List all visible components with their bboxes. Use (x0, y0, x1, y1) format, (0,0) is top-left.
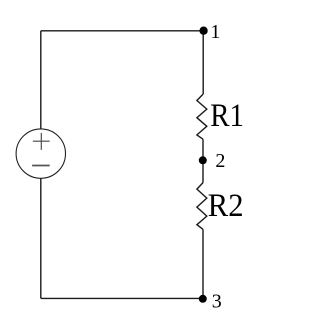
wire left vertical lower (40, 178, 42, 298)
minus sign (32, 165, 50, 167)
resistor R2 (197, 183, 207, 230)
voltage source V circle (16, 129, 65, 178)
wire top horizontal (41, 30, 203, 32)
wire node 2 to R2 (202, 160, 204, 182)
wire right vertical upper (202, 31, 204, 94)
resistor R1 (197, 94, 207, 139)
node 1 junction dot (199, 27, 207, 35)
wire R2 to node 3 (202, 229, 204, 298)
plus sign (33, 133, 50, 150)
node 3 junction dot (199, 295, 207, 303)
wire bottom horizontal (41, 297, 203, 299)
svg-text:1: 1 (210, 21, 220, 43)
wire left vertical upper (40, 31, 42, 129)
wire R1 to node 2 (202, 139, 204, 160)
node 2 junction dot (199, 156, 207, 164)
svg-text:R1: R1 (210, 97, 244, 134)
svg-text:3: 3 (212, 291, 222, 313)
svg-text:2: 2 (215, 150, 225, 172)
svg-text:R2: R2 (208, 187, 244, 224)
